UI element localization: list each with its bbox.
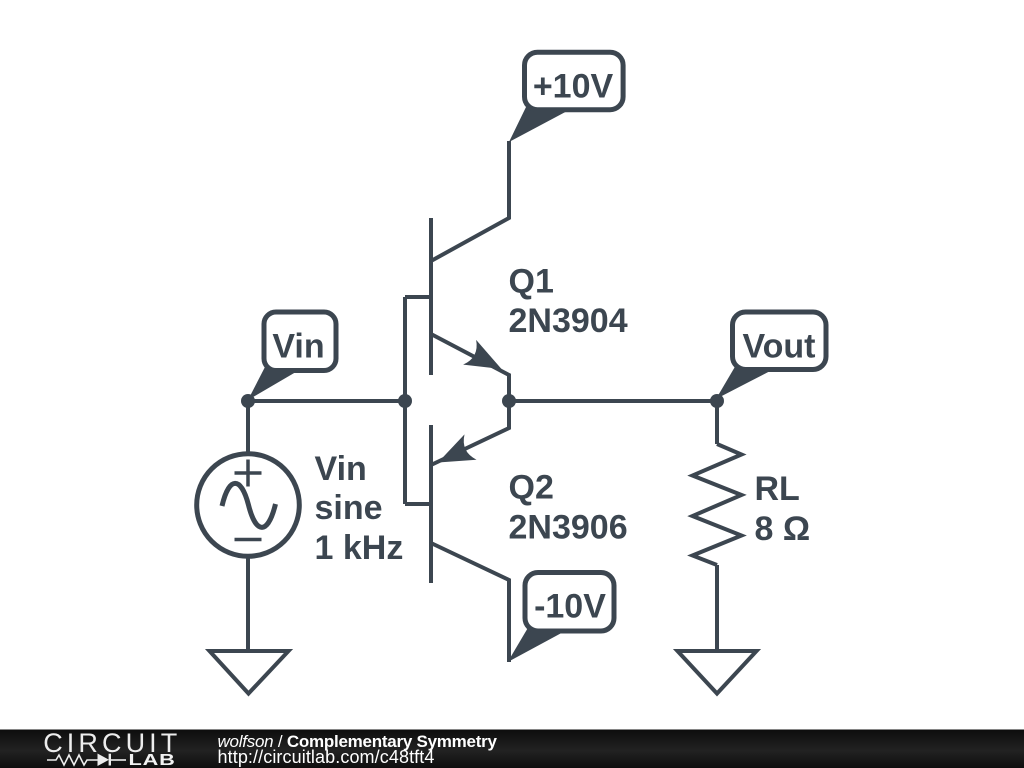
label Q2 2N3906 xyxy=(509,469,628,547)
wire Q1 base stub xyxy=(405,295,433,299)
wire base bus xyxy=(403,297,407,504)
wire Q2 base stub xyxy=(405,502,433,506)
svg-text:2N3904: 2N3904 xyxy=(509,302,628,340)
resistor RL xyxy=(693,444,742,565)
svg-text:sine: sine xyxy=(315,489,383,527)
svg-text:Vout: Vout xyxy=(742,327,815,365)
wire RL top xyxy=(715,401,719,444)
wire output xyxy=(509,399,717,403)
voltage source V1 xyxy=(197,454,300,557)
svg-text:Vin: Vin xyxy=(272,327,324,365)
net flag +10V xyxy=(509,52,623,142)
svg-text:Vin: Vin xyxy=(315,450,367,488)
node base junction xyxy=(398,394,412,408)
svg-text:LAB: LAB xyxy=(129,752,176,768)
node input junction xyxy=(241,394,255,408)
wire RL bottom xyxy=(715,565,719,651)
label RL 8 ohm xyxy=(755,470,811,548)
ground (source) xyxy=(210,651,289,694)
wire source top xyxy=(246,401,250,456)
label Q1 2N3904 xyxy=(509,263,628,341)
svg-text:Q2: Q2 xyxy=(509,469,554,507)
wire main input xyxy=(248,399,405,403)
wire -10V supply xyxy=(431,543,509,662)
transistor Q1 xyxy=(431,218,509,401)
ground (load) xyxy=(678,651,757,694)
net flag Vin xyxy=(248,312,336,400)
label Vin sine 1 kHz xyxy=(315,450,404,567)
node emitter junction xyxy=(502,394,516,408)
svg-text:Q1: Q1 xyxy=(509,263,554,301)
svg-text:http://circuitlab.com/c48tft4: http://circuitlab.com/c48tft4 xyxy=(218,747,435,767)
net flag -10V xyxy=(508,573,614,663)
svg-text:+10V: +10V xyxy=(533,68,614,106)
wire +10V supply xyxy=(431,141,509,261)
svg-text:1 kHz: 1 kHz xyxy=(315,529,404,567)
svg-text:-10V: -10V xyxy=(534,588,606,626)
net flag Vout xyxy=(716,312,826,399)
logo CIRCUIT LAB xyxy=(43,728,181,768)
svg-text:2N3906: 2N3906 xyxy=(509,509,628,547)
node output junction xyxy=(710,394,724,408)
transistor Q2 xyxy=(431,401,509,583)
wire source bottom xyxy=(246,555,250,651)
svg-text:RL: RL xyxy=(755,470,800,508)
svg-text:8 Ω: 8 Ω xyxy=(755,510,811,548)
